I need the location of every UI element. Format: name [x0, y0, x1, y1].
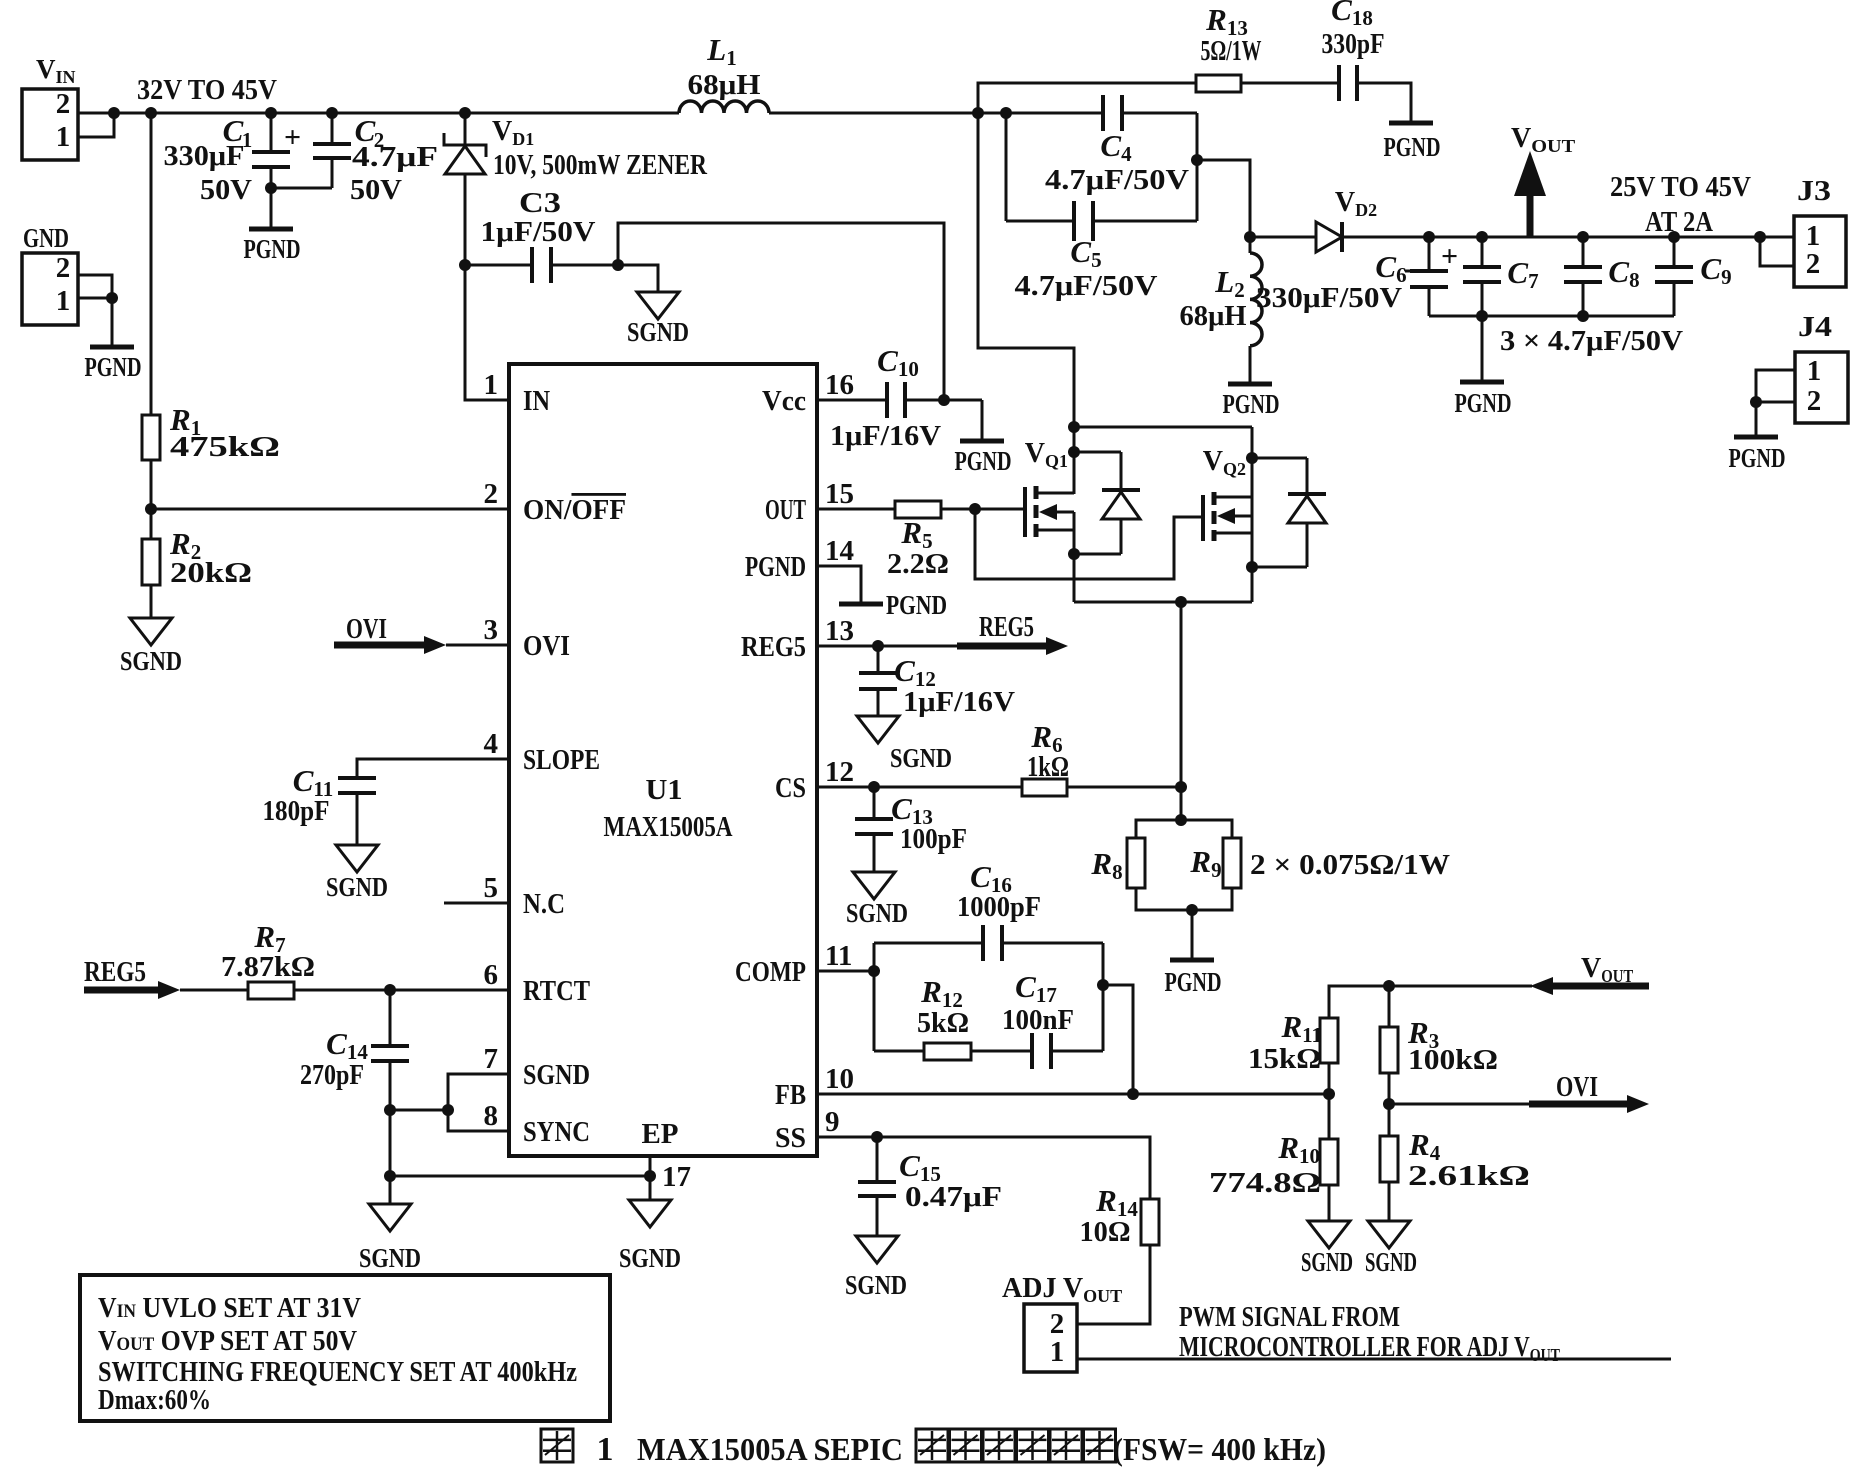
svg-text:SYNC: SYNC: [523, 1117, 590, 1148]
svg-text:774.8Ω: 774.8Ω: [1209, 1168, 1321, 1199]
svg-text:4.7μF/50V: 4.7μF/50V: [1045, 165, 1189, 196]
svg-text:1: 1: [1807, 355, 1822, 387]
ground SGND (C15): [845, 1236, 907, 1300]
svg-text:REG5: REG5: [84, 957, 146, 988]
wire R13 to C18: [1241, 82, 1339, 85]
resistor R10 774.8ohm: [1209, 1130, 1338, 1199]
ground PGND (C1/C2): [244, 188, 301, 264]
svg-text:J3: J3: [1797, 176, 1831, 207]
svg-text:100nF: 100nF: [1002, 1005, 1074, 1036]
net arrow REG5 (pin 13 output): [817, 612, 1068, 655]
svg-text:330μF/50V: 330μF/50V: [1256, 283, 1402, 314]
note box: [80, 1275, 610, 1421]
svg-text:10Ω: 10Ω: [1080, 1217, 1131, 1248]
svg-text:SGND: SGND: [619, 1243, 681, 1273]
connector GND (J2): [22, 223, 78, 325]
connector J3: [1794, 176, 1846, 287]
svg-text:7: 7: [484, 1043, 499, 1075]
svg-text:20kΩ: 20kΩ: [170, 558, 252, 589]
svg-text:2.61kΩ: 2.61kΩ: [1408, 1161, 1530, 1192]
junction R1 tap: [145, 107, 157, 119]
svg-text:SGND: SGND: [359, 1243, 421, 1273]
wire ON/OFF node to U1 pin 2: [151, 508, 509, 511]
svg-text:PWM SIGNAL FROM: PWM SIGNAL FROM: [1179, 1302, 1400, 1333]
svg-text:1μF/16V: 1μF/16V: [903, 687, 1015, 718]
junction C3 right node: [612, 259, 624, 271]
resistor R3 100kohm: [1380, 986, 1498, 1076]
wire ADJ pin 1 PWM input: [1077, 1358, 1671, 1361]
body diode D2 (Q2): [1252, 458, 1326, 567]
ground PGND (GND connector): [85, 298, 142, 382]
svg-text:5kΩ: 5kΩ: [917, 1008, 969, 1039]
capacitor C7 (4.7uF/50V): [1463, 237, 1539, 316]
resistor R13 5ohm/1W: [1196, 2, 1262, 92]
junction FB/COMP branch: [1127, 1088, 1139, 1100]
ground SGND (C12): [857, 716, 952, 773]
svg-text:1μF/50V: 1μF/50V: [481, 217, 596, 248]
U1 pin 11 COMP: [735, 940, 852, 988]
wire switch node down to MOSFET drains: [978, 113, 1074, 494]
wire gate node to Q1 gate: [975, 508, 1025, 511]
svg-text:REG5: REG5: [741, 632, 806, 663]
ground PGND (pin 14): [839, 590, 947, 620]
svg-text:PGND: PGND: [955, 446, 1012, 476]
capacitor C18 330pF: [1322, 0, 1385, 101]
connector VIN (J1): [22, 54, 78, 160]
U1 pin 14 PGND: [745, 535, 854, 583]
svg-text:6: 6: [484, 959, 499, 991]
svg-text:8: 8: [484, 1100, 499, 1132]
transistor Q1 (VQ1): [975, 438, 1074, 602]
junction Q2 source: [1246, 561, 1258, 573]
svg-text:17: 17: [662, 1161, 691, 1193]
svg-text:OVI: OVI: [523, 631, 570, 662]
svg-text:PGND: PGND: [886, 590, 947, 620]
svg-text:4.7μF: 4.7μF: [352, 142, 438, 173]
net arrow OVI (output): [1389, 1072, 1649, 1113]
svg-text:4.7μF/50V: 4.7μF/50V: [1015, 271, 1158, 302]
svg-text:14: 14: [825, 535, 854, 567]
svg-text:11: 11: [825, 940, 852, 972]
svg-text:100kΩ: 100kΩ: [1408, 1045, 1498, 1076]
svg-text:REG5: REG5: [979, 612, 1034, 643]
junction REG5/C12: [872, 640, 884, 652]
svg-text:PGND: PGND: [1223, 389, 1280, 419]
inductor L1 68uH: [679, 32, 769, 113]
wire sense bus to R8/R9: [1180, 602, 1183, 820]
junction VIN pins: [108, 107, 120, 119]
capacitor C5 (4.7uF/50V): [1006, 113, 1197, 302]
junction sense bus: [1175, 596, 1187, 608]
wire pin 11 COMP to network: [817, 970, 874, 973]
wire GND pin1: [78, 297, 112, 300]
junction OVI divider tap: [1383, 1098, 1395, 1110]
U1 pin 14 PGND stub: [817, 566, 861, 604]
svg-text:2: 2: [56, 252, 71, 284]
ground SGND (C11): [326, 845, 388, 902]
svg-text:SGND: SGND: [326, 872, 388, 902]
svg-text:50V: 50V: [350, 175, 402, 206]
svg-text:SGND: SGND: [890, 743, 952, 773]
svg-text:3 × 4.7μF/50V: 3 × 4.7μF/50V: [1500, 326, 1683, 357]
svg-text:C3: C3: [519, 188, 561, 219]
junction SYNC loop: [442, 1104, 454, 1116]
wire R7 to U1 pin 6 RTCT: [294, 989, 509, 992]
svg-text:1μF/16V: 1μF/16V: [830, 421, 941, 452]
capacitor C14 270pF: [300, 990, 409, 1176]
svg-text:4: 4: [484, 728, 499, 760]
wire R11 to R10: [1328, 1063, 1331, 1139]
svg-text:PGND: PGND: [1455, 388, 1512, 418]
ground SGND (R4): [1365, 1182, 1417, 1277]
wire C1-C2 ground link: [271, 187, 332, 190]
svg-text:330pF: 330pF: [1322, 29, 1385, 60]
ground PGND (J4): [1729, 402, 1786, 473]
svg-text:SGND: SGND: [120, 646, 182, 676]
capacitor C11 180pF: [263, 763, 377, 845]
junction R8/R9 bottom: [1186, 904, 1198, 916]
svg-text:PGND: PGND: [745, 552, 806, 583]
ground SGND (R2): [120, 618, 182, 676]
svg-text:1kΩ: 1kΩ: [1027, 752, 1069, 783]
svg-text:15kΩ: 15kΩ: [1248, 1044, 1321, 1075]
net arrow REG5 input (pin 6): [84, 957, 248, 999]
ground PGND (output caps): [1455, 316, 1512, 418]
wire output cap ground bus: [1429, 315, 1674, 318]
svg-text:Dmax:60%: Dmax:60%: [98, 1385, 211, 1416]
junction Q1 drain top: [1068, 421, 1080, 433]
ground PGND (L2): [1223, 384, 1280, 419]
resistor R6 1kohm: [1022, 719, 1069, 796]
resistor R4 2.61kohm: [1380, 1127, 1530, 1192]
svg-text:68μH: 68μH: [688, 70, 761, 101]
capacitor C4 (4.7uF/50V): [1006, 95, 1197, 196]
ground PGND (C18): [1384, 123, 1441, 162]
svg-text:270pF: 270pF: [300, 1060, 364, 1091]
svg-text:N.C: N.C: [523, 889, 565, 920]
capacitor C9 (4.7uF/50V): [1655, 237, 1732, 316]
svg-text:2: 2: [56, 88, 71, 120]
wire pin 9 SS net: [817, 1137, 1150, 1199]
wire C18 to PGND: [1357, 83, 1411, 123]
junction R3 top: [1383, 980, 1395, 992]
svg-text:100pF: 100pF: [900, 824, 967, 855]
wire SGND rail to EP: [390, 1175, 650, 1178]
wire C14 to SYNC loop: [390, 1109, 448, 1112]
label PWM SIGNAL FROM MICROCONTROLLER: [1179, 1302, 1560, 1365]
net arrow OVI input (pin 3): [334, 614, 509, 654]
svg-text:SGND: SGND: [1365, 1247, 1417, 1277]
junction CS sense node: [1175, 781, 1187, 793]
wire divider top bus: [1329, 986, 1389, 1018]
ground SGND (R10): [1301, 1185, 1353, 1277]
U1 pin 13 REG5: [741, 615, 854, 663]
ground SGND (C3): [627, 292, 689, 347]
svg-text:VIN UVLO SET AT 31V: VIN UVLO SET AT 31V: [98, 1293, 361, 1324]
svg-text:J4: J4: [1798, 312, 1832, 343]
U1 pin 17 EP: [642, 1119, 692, 1193]
junction C4/C5 box right: [1191, 154, 1203, 166]
wire R3 to R4: [1388, 1073, 1391, 1136]
svg-text:+: +: [1441, 240, 1458, 273]
junction SGND rail / EP: [384, 1170, 396, 1182]
capacitor C6 (electrolytic 330uF/50V): [1375, 237, 1458, 316]
svg-text:OVI: OVI: [1556, 1072, 1598, 1103]
svg-text:2: 2: [484, 478, 499, 510]
svg-text:2: 2: [1807, 385, 1822, 417]
ground PGND (C10): [955, 400, 1012, 476]
capacitor C17 100nF: [971, 969, 1103, 1069]
junction COMP node: [868, 965, 880, 977]
capacitor C2 (4.7uF/50V): [313, 113, 438, 206]
svg-text:3: 3: [484, 614, 499, 646]
resistor R14 10ohm: [1080, 1183, 1160, 1248]
svg-text:SGND: SGND: [846, 898, 908, 928]
junction VQ2 node: [1246, 452, 1258, 464]
svg-text:180pF: 180pF: [263, 796, 330, 827]
capacitor C1 (electrolytic 330uF/50V): [164, 113, 302, 206]
wire Q2 drain drop: [1251, 427, 1254, 497]
wire pin 12 CS to sense node: [817, 786, 1181, 789]
wire pin7 SGND to pin8 SYNC loop: [448, 1074, 509, 1131]
svg-text:7.87kΩ: 7.87kΩ: [221, 952, 315, 983]
transistor Q2 (VQ2): [1203, 446, 1252, 602]
wire GND pin2 loop: [78, 275, 112, 298]
svg-text:1000pF: 1000pF: [957, 892, 1041, 923]
wire J4 pin1 loop: [1756, 370, 1795, 402]
zener diode VD1: [444, 113, 708, 265]
wire VD1 node to U1 pin 1 IN: [465, 265, 509, 400]
caption 图1 MAX15005A SEPIC schematic title: [541, 1429, 1326, 1468]
capacitor C12 1uF/16V: [859, 646, 1015, 718]
U1 pin 16 Vcc: [762, 369, 854, 417]
junction cap bus C7: [1476, 310, 1488, 322]
junction C6 tap: [1423, 231, 1435, 243]
U1 pin 2 ON/OFF: [484, 478, 627, 526]
junction EP node: [644, 1170, 656, 1182]
wire C3 node to C10/Vcc net: [618, 223, 944, 400]
U1 pin 15 OUT: [765, 478, 854, 526]
svg-text:SGND: SGND: [523, 1060, 590, 1091]
junction C1 ground: [265, 182, 277, 194]
net arrow VOUT (output, up): [1511, 123, 1575, 237]
junction switch node rail: [972, 107, 984, 119]
svg-text:RTCT: RTCT: [523, 976, 590, 1007]
svg-text:EP: EP: [642, 1119, 679, 1150]
svg-text:FB: FB: [775, 1080, 806, 1111]
junction CS/C13: [868, 781, 880, 793]
resistor R9 0.075ohm: [1189, 838, 1241, 888]
svg-text:10: 10: [825, 1063, 854, 1095]
wire R14 to ADJ connector pin 2: [1077, 1245, 1150, 1324]
wire R2 to SGND: [150, 585, 153, 618]
junction gate node: [969, 503, 981, 515]
U1 pin 7 SGND: [484, 1043, 591, 1091]
junction cap bus C8: [1577, 310, 1589, 322]
wire COMP box left edge: [873, 943, 876, 1051]
U1 pin 4 SLOPE: [484, 728, 601, 776]
connector J4: [1795, 312, 1848, 423]
junction COMP box right: [1097, 979, 1109, 991]
svg-text:9: 9: [825, 1106, 840, 1138]
svg-text:U1: U1: [646, 774, 683, 806]
svg-text:MAX15005A: MAX15005A: [604, 811, 733, 843]
svg-text:475kΩ: 475kΩ: [170, 432, 280, 463]
junction J3 tap: [1754, 231, 1766, 243]
U1 pin 8 SYNC: [484, 1100, 591, 1148]
wire box to L2/VD2 node: [1197, 160, 1250, 237]
svg-text:PGND: PGND: [85, 352, 142, 382]
wire pin 10 FB to divider: [817, 1093, 1329, 1096]
svg-text:SGND: SGND: [627, 317, 689, 347]
resistor R7 7.87kohm: [221, 919, 315, 999]
U1 pin 1 IN: [484, 369, 551, 417]
junction C9 tap: [1668, 231, 1680, 243]
wire MOSFET source bus: [1074, 601, 1252, 604]
svg-text:PGND: PGND: [1729, 443, 1786, 473]
U1 pin 6 RTCT: [484, 959, 591, 1007]
wire input rail 32V: [114, 112, 1006, 115]
wire gate node to Q2 gate: [975, 509, 1203, 579]
svg-text:68μH: 68μH: [1180, 301, 1247, 332]
svg-text:50V: 50V: [200, 175, 252, 206]
resistor R12 5kohm: [874, 974, 971, 1060]
junction ON/OFF node: [145, 503, 157, 515]
svg-text:(FSW= 400 kHz): (FSW= 400 kHz): [1113, 1431, 1326, 1467]
wire VIN pin1 loop: [78, 113, 114, 137]
svg-text:25V TO 45V: 25V TO 45V: [1610, 172, 1751, 203]
svg-text:2.2Ω: 2.2Ω: [887, 549, 949, 580]
svg-text:16: 16: [825, 369, 854, 401]
svg-text:OUT: OUT: [765, 495, 806, 526]
svg-text:5: 5: [484, 872, 499, 904]
wire rail to R1: [150, 113, 153, 415]
svg-text:1: 1: [484, 369, 499, 401]
junction C10/zener-net node: [938, 394, 950, 406]
wire R1 to R2 / ON-OFF node: [150, 460, 153, 539]
svg-text:1: 1: [597, 1431, 614, 1468]
ground SGND (C13): [846, 872, 908, 928]
wire J4 pin2: [1756, 401, 1795, 404]
junction C1 tap: [265, 107, 277, 119]
svg-text:5Ω/1W: 5Ω/1W: [1201, 36, 1262, 67]
pin 5 N.C stub: [444, 902, 509, 905]
svg-text:SGND: SGND: [845, 1270, 907, 1300]
svg-text:SLOPE: SLOPE: [523, 745, 600, 776]
resistor R8 0.075ohm: [1090, 838, 1145, 888]
svg-text:32V TO 45V: 32V TO 45V: [137, 75, 277, 106]
svg-text:SGND: SGND: [1301, 1247, 1353, 1277]
wire pin 4 SLOPE to C11: [357, 759, 509, 778]
junction C4/C5 box left: [1000, 107, 1012, 119]
junction VD1 tap: [459, 107, 471, 119]
U1 pin 3 OVI: [484, 614, 571, 662]
wire C3 node to SGND stub: [618, 265, 658, 292]
junction FB divider tap: [1323, 1088, 1335, 1100]
junction VD1/C3/IN node: [459, 259, 471, 271]
wire COMP box right edge: [1102, 943, 1105, 1051]
svg-text:330μF: 330μF: [164, 141, 245, 172]
svg-text:1: 1: [1050, 1336, 1065, 1368]
svg-text:ON/OFF: ON/OFF: [523, 495, 626, 526]
svg-text:CS: CS: [775, 773, 806, 804]
body diode D1 (Q1): [1074, 452, 1140, 554]
capacitor C13 100pF: [855, 787, 967, 872]
capacitor C15 0.47uF: [858, 1137, 1002, 1236]
svg-text:PGND: PGND: [1384, 132, 1441, 162]
wire MOSFET top interconnect: [1074, 426, 1252, 429]
junction C2 tap: [326, 107, 338, 119]
junction Q1 source: [1068, 548, 1080, 560]
svg-text:0.47μF: 0.47μF: [905, 1182, 1002, 1213]
svg-text:13: 13: [825, 615, 854, 647]
svg-text:COMP: COMP: [735, 957, 806, 988]
ground PGND (R8/R9): [1165, 910, 1222, 997]
IC U1 MAX15005A body: [509, 364, 817, 1156]
svg-text:10V, 500mW ZENER: 10V, 500mW ZENER: [493, 150, 708, 181]
junction J4 pins: [1750, 396, 1762, 408]
wire VIN pin2 to input rail: [78, 112, 114, 115]
svg-text:1: 1: [56, 285, 71, 317]
junction SS/C15: [871, 1131, 883, 1143]
inductor L2 68uH: [1180, 237, 1262, 384]
svg-text:PGND: PGND: [1165, 967, 1222, 997]
capacitor C8 (4.7uF/50V): [1564, 237, 1640, 316]
junction C8 tap: [1577, 231, 1589, 243]
svg-text:1: 1: [56, 121, 71, 153]
U1 pin 10 FB: [775, 1063, 854, 1111]
svg-text:2: 2: [1806, 248, 1821, 280]
svg-text:15: 15: [825, 478, 854, 510]
wire switch node to snubber: [978, 83, 1196, 113]
capacitor C3 (1uF/50V): [465, 188, 618, 283]
wire J3 pin2 loop: [1760, 237, 1794, 266]
junction RTCT/C14: [384, 984, 396, 996]
svg-text:MAX15005A SEPIC: MAX15005A SEPIC: [637, 1431, 903, 1467]
U1 pin 9 SS: [775, 1106, 840, 1154]
resistor R2: [142, 526, 252, 589]
connector ADJ VOUT: [1002, 1273, 1122, 1372]
svg-text:2 × 0.075Ω/1W: 2 × 0.075Ω/1W: [1250, 850, 1450, 881]
svg-text:PGND: PGND: [244, 234, 301, 264]
svg-text:SS: SS: [775, 1123, 806, 1154]
resistor R5 2.2ohm (OUT gate drive): [817, 501, 975, 580]
ground SGND (EP): [619, 1176, 681, 1273]
capacitor C10 1uF/16V (Vcc): [817, 343, 982, 452]
svg-text:GND: GND: [23, 223, 69, 253]
net label 25V TO 45V / AT 2A: [1610, 172, 1751, 238]
junction R8/R9 top: [1175, 814, 1187, 826]
ground SGND (C14): [359, 1176, 421, 1273]
wire output rail: [1429, 236, 1794, 239]
junction C14 bottom branch: [384, 1104, 396, 1116]
wire COMP network to FB: [1103, 985, 1133, 1094]
svg-text:IN: IN: [523, 386, 550, 417]
wire R8/R9 top bus: [1136, 820, 1232, 838]
svg-text:MICROCONTROLLER FOR ADJ VOUT: MICROCONTROLLER FOR ADJ VOUT: [1179, 1332, 1560, 1365]
svg-text:12: 12: [825, 756, 854, 788]
junction GND pins: [106, 292, 118, 304]
resistor R1: [142, 402, 280, 463]
svg-text:+: +: [284, 121, 301, 154]
svg-text:SWITCHING FREQUENCY SET AT 400: SWITCHING FREQUENCY SET AT 400kHz: [98, 1357, 577, 1388]
svg-text:Vcc: Vcc: [762, 386, 806, 417]
capacitor C16 1000pF: [874, 859, 1103, 961]
diode VD2: [1250, 187, 1429, 252]
U1 pin 12 CS: [775, 756, 854, 804]
svg-text:OVI: OVI: [346, 614, 387, 645]
wire R8/R9 bottom bus: [1136, 888, 1232, 910]
